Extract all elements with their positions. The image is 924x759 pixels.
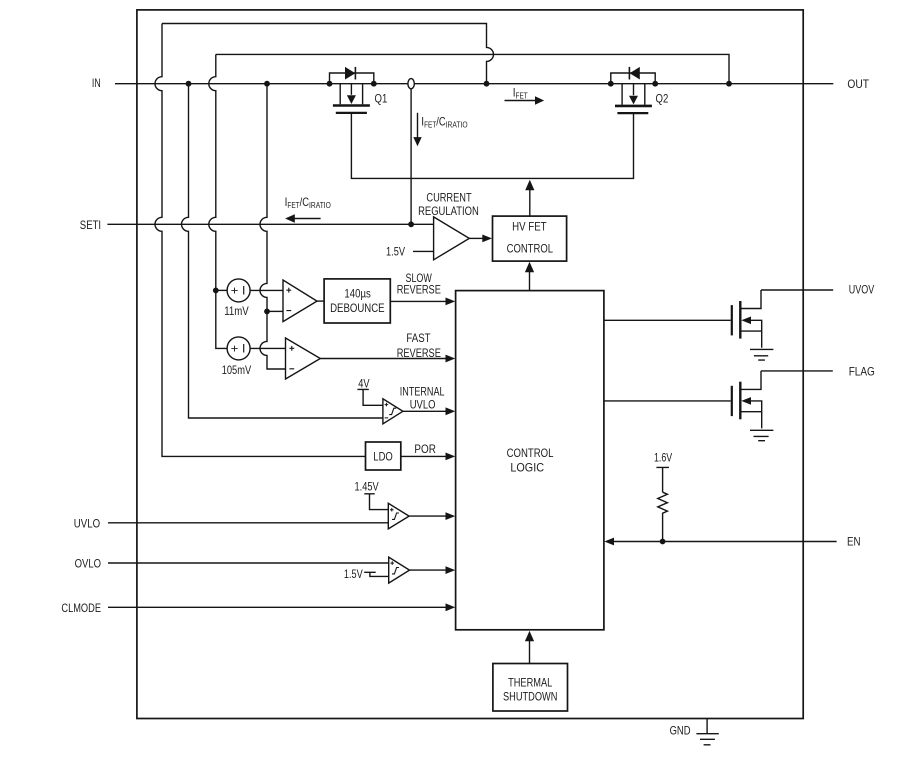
- wire top loop A (mid-node to LDO supply): [162, 24, 494, 84]
- wire control logic to FLAG FET gate: [604, 400, 731, 402]
- transistor Q1 body diode loop: [330, 73, 374, 84]
- svg-text:4V: 4V: [358, 376, 369, 390]
- block 140us DEBOUNCE: [324, 279, 390, 323]
- junction V3 at 11mV source: [213, 288, 219, 294]
- svg-text:REGULATION: REGULATION: [418, 204, 479, 218]
- comparator fast reverse: [286, 338, 321, 379]
- svg-text:IFET: IFET: [513, 85, 528, 100]
- transistor UVOV open-drain FET: [731, 305, 733, 335]
- block THERMAL SHUTDOWN: [493, 664, 568, 712]
- svg-text:UVLO: UVLO: [410, 398, 436, 412]
- svg-text:EN: EN: [847, 535, 861, 549]
- comparator UVLO (1.45V): [388, 503, 409, 529]
- svg-text:1.5V: 1.5V: [386, 245, 405, 259]
- svg-text:1.45V: 1.45V: [355, 479, 379, 493]
- transistor Q2 body diode: [630, 67, 640, 80]
- junction EN/resistor: [660, 539, 666, 545]
- svg-text:+ I: + I: [231, 286, 246, 298]
- wire UVLO comparator to control logic: [409, 515, 446, 517]
- svg-text:1.5V: 1.5V: [344, 567, 363, 581]
- wire OVLO comparator to control logic: [410, 569, 447, 571]
- wire SETI line: [107, 223, 433, 225]
- svg-text:UVOV: UVOV: [849, 283, 874, 297]
- junction sense wire on SETI line: [408, 221, 414, 227]
- svg-text:1.6V: 1.6V: [654, 450, 672, 464]
- wire V3 stub to 11mV source: [216, 289, 227, 291]
- svg-text:Q1: Q1: [375, 91, 388, 105]
- comparator internal UVLO: [383, 399, 403, 424]
- transistor Q2 drain/source stubs: [622, 84, 645, 105]
- svg-text:UVLO: UVLO: [74, 516, 100, 530]
- wire current sense to SETI node: [410, 89, 412, 225]
- wire slow comparator to debounce: [317, 300, 324, 302]
- current source 105mV offset: [227, 337, 250, 360]
- svg-text:IFET/CIRATIO: IFET/CIRATIO: [285, 195, 332, 210]
- block HV FET CONTROL: [493, 216, 567, 261]
- transistor Q2 source terminal dot: [652, 81, 658, 87]
- junction V4 on IN line: [264, 81, 270, 87]
- wire vertical V2 (x=188.5) IN sense to internal UVLO comparator: [182, 84, 383, 418]
- current source 11mV offset: [227, 279, 250, 302]
- block LDO: [366, 442, 401, 470]
- wire EN line: [613, 541, 837, 543]
- comparator slow reverse: [283, 280, 317, 322]
- svg-text:LOGIC: LOGIC: [510, 460, 544, 474]
- comparator OVLO (1.5V): [389, 557, 410, 583]
- svg-text:CONTROL: CONTROL: [507, 446, 554, 460]
- wire CLMODE line into control logic: [108, 606, 447, 608]
- wire 11mV source to slow comparator plus input: [250, 289, 283, 291]
- svg-text:POR: POR: [414, 442, 436, 456]
- svg-text:Q2: Q2: [656, 91, 669, 105]
- svg-text:DEBOUNCE: DEBOUNCE: [330, 301, 385, 315]
- op-amp current regulation: [434, 217, 470, 260]
- transistor FLAG open-drain FET: [731, 386, 733, 416]
- wire UVOV pin line: [761, 289, 833, 291]
- ground GND pin symbol: [696, 719, 718, 745]
- transistor Q1 channel bar: [333, 104, 370, 107]
- wire OVLO line to 1.5V comparator: [108, 562, 389, 564]
- wire top loop B (OUT sense): [216, 54, 729, 83]
- transistor Q1 gate plate: [336, 112, 367, 114]
- svg-text:FAST: FAST: [406, 331, 431, 345]
- node IN/OUT power rail wire: [115, 83, 833, 85]
- wire control logic to HV FET control (up arrow): [529, 272, 531, 291]
- svg-text:CONTROL: CONTROL: [507, 242, 554, 256]
- wire vertical V3 (x=215.8) with hops, to offset current sources: [209, 54, 227, 348]
- IC boundary box: [137, 10, 803, 719]
- junction wire B on OUT line: [726, 81, 732, 87]
- transistor Q1 drain terminal dot: [327, 81, 333, 87]
- svg-text:LDO: LDO: [373, 450, 393, 464]
- svg-text:REVERSE: REVERSE: [397, 283, 441, 297]
- svg-text:OVLO: OVLO: [75, 556, 101, 570]
- svg-text:105mV: 105mV: [222, 363, 252, 377]
- junction V4 to slow comparator minus input: [264, 309, 270, 315]
- transistor Q2 body arrow: [633, 84, 635, 96]
- transistor Q1 source terminal dot: [371, 81, 377, 87]
- svg-text:SHUTDOWN: SHUTDOWN: [503, 690, 557, 704]
- wire FLAG pin line: [761, 370, 833, 372]
- transistor Q1 drain/source stubs: [340, 84, 362, 105]
- transistor Q2 drain terminal dot: [608, 81, 614, 87]
- transistor Q2 channel bar: [615, 105, 652, 108]
- wire gate drive net Q1-Q2: [351, 113, 633, 178]
- transistor Q1 body arrow: [350, 84, 352, 95]
- svg-text:SETI: SETI: [80, 218, 101, 232]
- svg-text:CURRENT: CURRENT: [426, 190, 472, 204]
- wire control logic to UVOV FET gate: [604, 319, 731, 321]
- ground UVOV FET source: [750, 349, 773, 360]
- svg-text:140µs: 140µs: [344, 287, 370, 301]
- svg-text:FLAG: FLAG: [849, 365, 875, 379]
- svg-text:11mV: 11mV: [224, 304, 249, 318]
- current sense element on rail: [408, 79, 414, 89]
- wire vertical V1 (x=162) with hops, to LDO input: [155, 24, 365, 457]
- wire thermal shutdown to control logic (up arrow): [529, 641, 531, 664]
- svg-text:CLMODE: CLMODE: [61, 601, 101, 615]
- wire vertical V4 (x=267) IN sense to reverse comparators: [260, 84, 285, 369]
- wire internal UVLO comparator to control logic: [403, 410, 447, 412]
- wire debounce to control logic: [390, 300, 446, 302]
- svg-text:INTERNAL: INTERNAL: [400, 385, 445, 399]
- wire HV FET control to gate net (up arrow): [529, 190, 531, 216]
- svg-text:OUT: OUT: [847, 77, 869, 91]
- wire LDO POR output to control logic: [401, 455, 447, 457]
- wire V4 to slow comparator minus input: [267, 310, 283, 312]
- svg-text:HV FET: HV FET: [512, 220, 547, 234]
- svg-text:GND: GND: [670, 723, 691, 737]
- svg-text:IN: IN: [92, 76, 101, 90]
- wire fast comparator to control logic: [320, 358, 446, 360]
- wire UVLO line to 1.45V comparator: [108, 522, 388, 524]
- resistor EN pull-up: [658, 492, 668, 541]
- svg-text:+ I: + I: [231, 344, 246, 356]
- transistor Q1 body diode: [345, 67, 355, 80]
- wire 105mV source to fast comparator plus input: [250, 347, 285, 349]
- svg-text:IFET/CIRATIO: IFET/CIRATIO: [421, 115, 468, 130]
- block CONTROL LOGIC: [456, 291, 604, 630]
- svg-text:THERMAL: THERMAL: [508, 676, 552, 690]
- junction wire A on mid node: [484, 81, 490, 87]
- transistor Q2 gate plate: [617, 112, 648, 114]
- ground FLAG FET source: [750, 430, 773, 440]
- wire amp output to HV FET control: [469, 237, 483, 239]
- transistor Q2 body diode loop: [611, 73, 655, 84]
- junction V2 on IN line: [186, 81, 192, 87]
